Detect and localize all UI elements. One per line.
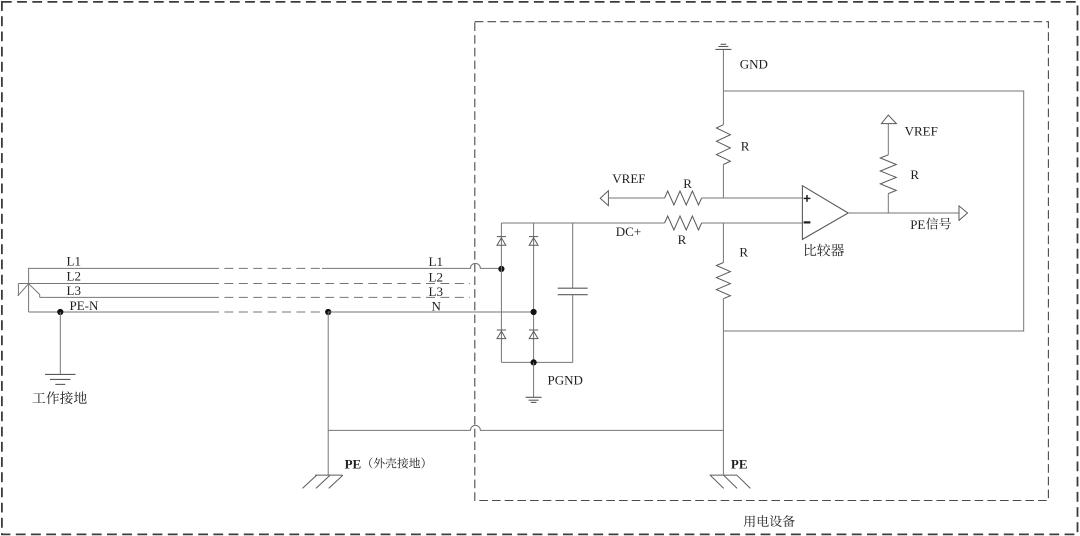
wire PE drop from N — [327, 312, 329, 475]
resistor R5 pullup — [880, 155, 896, 194]
op-amp U1 comparator — [802, 186, 848, 240]
label PE-N left — [70, 298, 100, 313]
wire DC+ top rail — [501, 222, 664, 224]
label R5 — [910, 167, 919, 182]
equipment inner box (top/right/bottom) — [723, 91, 1023, 331]
svg-text:L1: L1 — [67, 254, 81, 269]
ground PE chassis right — [710, 475, 751, 488]
wire working-earth drop — [59, 312, 61, 374]
wire PE-N solid left — [29, 311, 210, 313]
node N junction on bridge — [531, 309, 537, 315]
ground GND symbol (inverted earth) — [715, 44, 731, 49]
wire L3 solid left — [40, 296, 210, 298]
svg-text:PE: PE — [345, 456, 362, 471]
ground working earth symbol — [45, 374, 76, 384]
terminal VREF up arrow — [881, 115, 896, 124]
diode D3 bottom-left — [497, 330, 506, 339]
svg-text:L2: L2 — [67, 269, 81, 284]
svg-text:GND: GND — [740, 56, 768, 71]
op-amp plus input marker — [804, 195, 811, 202]
terminal PE signal output arrow — [959, 206, 968, 221]
label L3 mid — [429, 284, 443, 299]
wire bridge bottom rail — [501, 361, 572, 363]
wire bridge right rail — [533, 223, 535, 362]
svg-text:PE-N: PE-N — [70, 298, 100, 313]
source arrow on L2 (break symbol) — [18, 284, 40, 298]
svg-text:PE: PE — [910, 217, 925, 232]
wire comparator output — [848, 212, 959, 214]
label R4 — [739, 245, 748, 260]
svg-text:VREF: VREF — [612, 171, 645, 186]
capacitor C1 bottom lead — [572, 295, 574, 363]
diode D2 top-right — [529, 237, 538, 246]
wire bridge left rail — [500, 223, 502, 362]
terminal VREF left arrow — [600, 191, 608, 206]
label PE right — [731, 456, 748, 471]
svg-text:R: R — [739, 245, 748, 260]
label N mid — [432, 299, 442, 314]
svg-text:DC+: DC+ — [616, 224, 641, 239]
wire rail to box bottom — [722, 299, 724, 331]
label DC+ — [616, 224, 641, 239]
label L1 left — [67, 254, 81, 269]
label VREF left — [612, 171, 645, 186]
diode D1 top-left — [497, 237, 506, 246]
wire L1 solid right with crossover hop — [322, 263, 501, 268]
node N junction to PE drop — [325, 309, 331, 315]
svg-text:L2: L2 — [429, 270, 443, 285]
svg-text:R: R — [910, 167, 919, 182]
wire N solid — [328, 311, 533, 313]
wire PE horizontal with crossover hop — [328, 425, 723, 430]
wire equipment PE drop — [722, 331, 724, 475]
label PE信号 PE part — [910, 217, 925, 232]
label PE（外壳接地） PE part — [345, 456, 362, 471]
wire L1 dashed — [210, 267, 322, 269]
wire plus line left — [608, 197, 664, 199]
node L1 junction on bridge — [498, 266, 504, 272]
wire L1 solid left — [29, 267, 210, 269]
capacitor C1 plates — [558, 288, 588, 295]
label GND — [740, 56, 768, 71]
node bridge bottom junction — [531, 359, 537, 365]
wire rail to plus line — [722, 165, 724, 199]
label R2 — [683, 176, 692, 191]
label PGND — [548, 373, 583, 388]
wire L2 dashed — [210, 283, 470, 285]
capacitor C1 top lead — [572, 223, 574, 288]
node PE-N junction — [57, 309, 63, 315]
label PE信号 cjk part — [926, 217, 951, 229]
label L1 mid — [429, 254, 443, 269]
label 比较器 — [805, 244, 844, 257]
svg-text:R: R — [683, 176, 692, 191]
op-amp minus input marker — [804, 221, 811, 223]
wire minus line (DC+) — [702, 222, 803, 224]
svg-text:R: R — [741, 139, 750, 154]
resistor R3 (minus input) — [665, 216, 702, 230]
label R1 — [741, 139, 750, 154]
label L2 mid — [429, 270, 443, 285]
wire rail lower segment — [722, 223, 724, 263]
ground PGND earth symbol — [526, 397, 542, 402]
wire pullup lower lead — [887, 194, 889, 213]
label 工作接地 — [33, 391, 87, 404]
equipment box 用电设备 (dashed) — [475, 22, 1049, 501]
svg-text:R: R — [678, 232, 687, 247]
wire PE-N dashed — [210, 311, 321, 313]
resistor R4 (lower divider) — [716, 263, 730, 299]
svg-text:PE: PE — [731, 456, 748, 471]
wire GND rail upper — [722, 49, 724, 124]
label VREF right — [905, 123, 938, 138]
ground PE chassis left — [303, 475, 343, 488]
label PE（外壳接地） cjk part — [369, 457, 424, 468]
wire pullup upper lead — [887, 124, 889, 155]
wire PGND drop — [533, 362, 535, 397]
svg-text:N: N — [432, 299, 442, 314]
label 用电设备 — [744, 515, 795, 527]
label L2 left — [67, 269, 81, 284]
diode D4 bottom-right — [529, 330, 538, 339]
label L3 left — [67, 283, 81, 298]
svg-text:L3: L3 — [67, 283, 81, 298]
svg-text:L1: L1 — [429, 254, 443, 269]
wire plus line right — [702, 197, 803, 199]
resistor R1 (GND divider upper) — [716, 125, 730, 165]
label R3 — [678, 232, 687, 247]
node bus-left vertical — [28, 268, 30, 312]
svg-text:L3: L3 — [429, 284, 443, 299]
resistor R2 (plus input) — [665, 191, 702, 205]
svg-text:VREF: VREF — [905, 123, 938, 138]
wire L3 dashed — [210, 296, 470, 298]
svg-text:PGND: PGND — [548, 373, 583, 388]
wire L2 solid left — [18, 283, 210, 285]
